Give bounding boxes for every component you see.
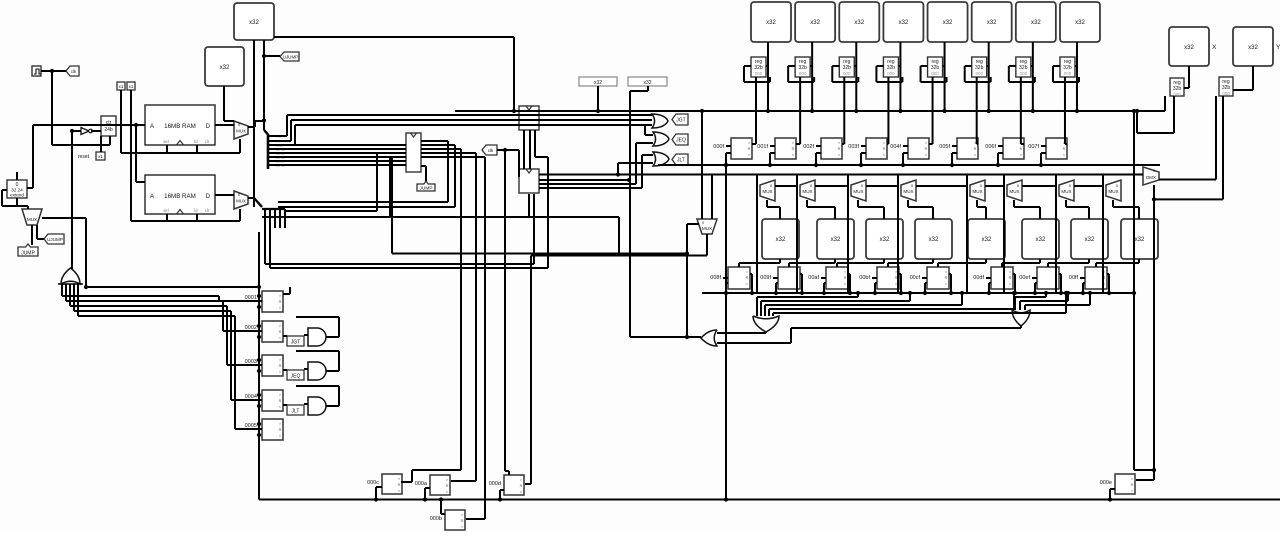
- svg-text:JLT: JLT: [677, 158, 685, 164]
- svg-text:x32: x32: [1248, 45, 1258, 51]
- svg-text:MUX: MUX: [1108, 189, 1118, 194]
- svg-text:x32: x32: [943, 20, 953, 26]
- svg-text:DMX: DMX: [1146, 175, 1156, 180]
- svg-text:R: R: [925, 147, 928, 151]
- svg-text:D: D: [206, 194, 211, 200]
- svg-text:000: 000: [755, 71, 763, 76]
- svg-text:x32: x32: [854, 20, 864, 26]
- svg-text:000: 000: [931, 71, 939, 76]
- svg-text:000: 000: [887, 71, 895, 76]
- svg-text:MUX: MUX: [972, 189, 982, 194]
- svg-text:R: R: [974, 147, 977, 151]
- svg-text:D: D: [206, 124, 211, 130]
- svg-text:002f: 002f: [803, 144, 814, 150]
- svg-text:sel: sel: [163, 139, 168, 144]
- svg-text:R: R: [883, 147, 886, 151]
- svg-text:000d: 000d: [489, 481, 501, 487]
- svg-text:00af: 00af: [808, 275, 819, 281]
- svg-text:JGT: JGT: [291, 340, 300, 346]
- svg-text:MUX: MUX: [27, 217, 37, 222]
- svg-text:x32: x32: [1031, 20, 1041, 26]
- svg-text:0: 0: [238, 123, 240, 127]
- svg-text:R: R: [1063, 147, 1066, 151]
- svg-text:x32: x32: [831, 237, 841, 243]
- svg-text:00df: 00df: [973, 275, 984, 281]
- svg-text:000c: 000c: [367, 480, 379, 486]
- svg-text:00bf: 00bf: [859, 275, 870, 281]
- svg-text:x32: x32: [594, 80, 602, 86]
- svg-text:A: A: [150, 194, 154, 200]
- svg-text:R: R: [844, 276, 847, 280]
- svg-text:006f: 006f: [985, 144, 996, 150]
- svg-text:x32: x32: [899, 20, 909, 26]
- svg-text:extend: extend: [10, 193, 24, 198]
- svg-text:x1: x1: [129, 84, 134, 89]
- svg-text:clr: clr: [205, 208, 210, 213]
- svg-text:clr: clr: [205, 139, 210, 144]
- svg-text:0: 0: [702, 221, 704, 225]
- svg-text:A: A: [150, 124, 154, 130]
- svg-text:24b: 24b: [104, 127, 113, 133]
- svg-text:R: R: [1020, 147, 1023, 151]
- svg-text:JEQ: JEQ: [291, 374, 301, 380]
- svg-text:000: 000: [799, 71, 807, 76]
- svg-text:000f: 000f: [713, 144, 724, 150]
- svg-text:004f: 004f: [890, 144, 901, 150]
- svg-text:x32: x32: [220, 65, 230, 71]
- svg-text:UJUMP: UJUMP: [283, 55, 298, 60]
- svg-text:MUX: MUX: [702, 226, 712, 231]
- svg-text:x32: x32: [987, 20, 997, 26]
- svg-text:R: R: [398, 483, 401, 487]
- svg-text:JUMP: JUMP: [21, 251, 35, 257]
- svg-text:x32: x32: [1075, 20, 1085, 26]
- svg-text:16MB RAM: 16MB RAM: [164, 193, 196, 200]
- svg-text:000: 000: [1222, 91, 1230, 96]
- svg-text:000e: 000e: [1100, 480, 1112, 486]
- svg-text:R: R: [279, 399, 282, 403]
- svg-text:x1: x1: [119, 84, 124, 89]
- svg-text:MUX: MUX: [802, 189, 812, 194]
- svg-text:x32: x32: [249, 20, 259, 26]
- svg-text:00ef: 00ef: [1019, 275, 1030, 281]
- svg-text:0: 0: [1153, 169, 1155, 173]
- svg-text:000: 000: [1020, 71, 1028, 76]
- svg-text:x32: x32: [810, 20, 820, 26]
- svg-text:MUX: MUX: [762, 189, 772, 194]
- svg-text:MUX: MUX: [1061, 189, 1071, 194]
- svg-text:MUX: MUX: [853, 189, 863, 194]
- svg-text:x32: x32: [880, 237, 890, 243]
- svg-text:JLT: JLT: [292, 409, 300, 415]
- svg-text:clk: clk: [488, 148, 494, 153]
- svg-text:R: R: [279, 428, 282, 432]
- svg-text:009f: 009f: [760, 275, 771, 281]
- svg-text:x32: x32: [1184, 45, 1194, 51]
- svg-text:sel: sel: [163, 208, 168, 213]
- svg-text:R: R: [746, 276, 749, 280]
- svg-text:clk: clk: [71, 69, 77, 74]
- svg-text:003f: 003f: [848, 144, 859, 150]
- svg-text:R: R: [279, 330, 282, 334]
- svg-text:x32: x32: [643, 80, 651, 86]
- svg-text:R: R: [279, 300, 282, 304]
- svg-text:000: 000: [843, 71, 851, 76]
- svg-text:MUX: MUX: [236, 129, 246, 134]
- svg-text:001f: 001f: [757, 144, 768, 150]
- svg-text:000: 000: [975, 71, 983, 76]
- svg-text:007f: 007f: [1028, 144, 1039, 150]
- svg-text:JGT: JGT: [676, 118, 685, 124]
- svg-text:x32: x32: [766, 20, 776, 26]
- svg-text:000b: 000b: [430, 516, 442, 522]
- svg-text:MUX: MUX: [1009, 189, 1019, 194]
- svg-text:R: R: [1131, 483, 1134, 487]
- svg-text:JEQ: JEQ: [676, 138, 686, 144]
- svg-text:x32: x32: [1036, 237, 1046, 243]
- svg-text:R: R: [446, 484, 449, 488]
- svg-text:X: X: [1212, 44, 1217, 51]
- svg-text:R: R: [838, 147, 841, 151]
- svg-text:R: R: [945, 276, 948, 280]
- svg-text:00cf: 00cf: [910, 275, 921, 281]
- svg-text:JUMP: JUMP: [419, 186, 432, 192]
- svg-text:R: R: [792, 147, 795, 151]
- svg-text:x32: x32: [1085, 237, 1095, 243]
- svg-text:reset: reset: [78, 154, 90, 160]
- svg-text:16MB RAM: 16MB RAM: [164, 123, 196, 130]
- svg-text:MUX: MUX: [236, 199, 246, 204]
- svg-text:R: R: [461, 519, 464, 523]
- svg-text:005f: 005f: [939, 144, 950, 150]
- svg-text:R: R: [520, 484, 523, 488]
- svg-text:UJUMP: UJUMP: [47, 237, 63, 242]
- svg-text:Y: Y: [1276, 44, 1280, 51]
- svg-text:x32: x32: [776, 237, 786, 243]
- svg-text:x1: x1: [98, 154, 103, 159]
- svg-text:00ff: 00ff: [1069, 275, 1079, 281]
- svg-text:x32: x32: [929, 237, 939, 243]
- svg-text:x32: x32: [982, 237, 992, 243]
- svg-text:0: 0: [238, 193, 240, 197]
- svg-text:R: R: [1009, 276, 1012, 280]
- svg-text:R: R: [748, 147, 751, 151]
- svg-text:000a: 000a: [415, 481, 428, 487]
- svg-text:000: 000: [1064, 71, 1072, 76]
- svg-text:008f: 008f: [710, 275, 721, 281]
- svg-text:R: R: [279, 364, 282, 368]
- svg-text:x32: x32: [1135, 237, 1145, 243]
- svg-text:MUX: MUX: [903, 189, 913, 194]
